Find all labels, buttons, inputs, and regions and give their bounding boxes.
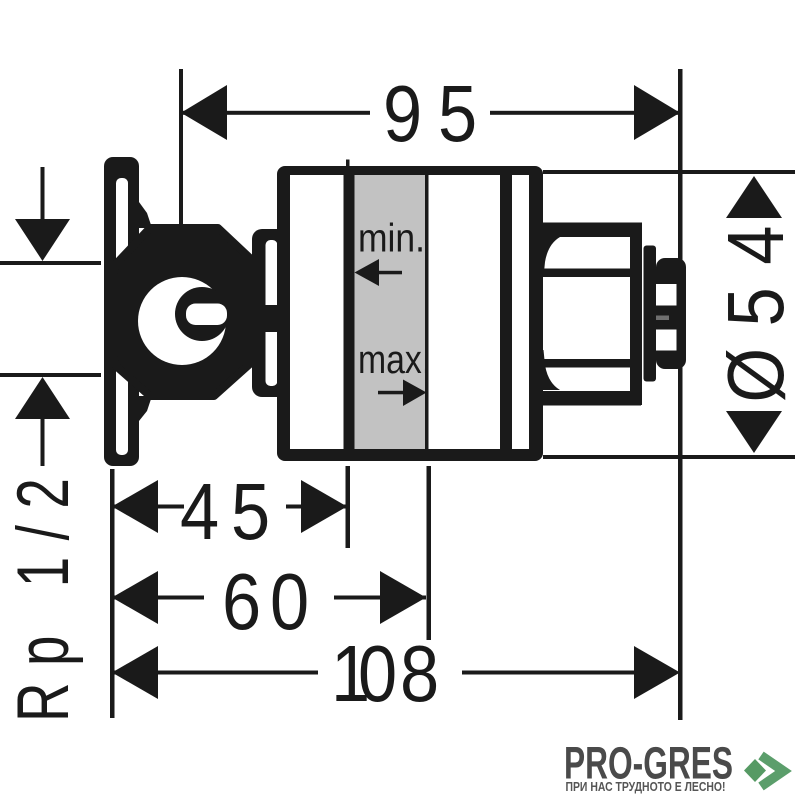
svg-text:max.: max.: [358, 336, 431, 381]
svg-text:4: 4: [180, 467, 219, 556]
svg-text:5: 5: [711, 287, 800, 326]
svg-text:5: 5: [438, 69, 477, 158]
svg-text:ПРИ НАС ТРУДНОТО Е ЛЕСНО!: ПРИ НАС ТРУДНОТО Е ЛЕСНО!: [566, 780, 726, 794]
svg-text:Rp 1/2: Rp 1/2: [2, 462, 83, 722]
svg-text:0: 0: [358, 629, 397, 718]
svg-text:6: 6: [222, 557, 261, 646]
svg-text:5: 5: [231, 467, 270, 556]
svg-text:4: 4: [711, 226, 800, 265]
svg-text:0: 0: [270, 557, 309, 646]
svg-text:Ø: Ø: [711, 348, 800, 403]
svg-text:min.: min.: [358, 217, 425, 261]
svg-text:8: 8: [400, 629, 439, 718]
svg-text:9: 9: [383, 69, 422, 158]
